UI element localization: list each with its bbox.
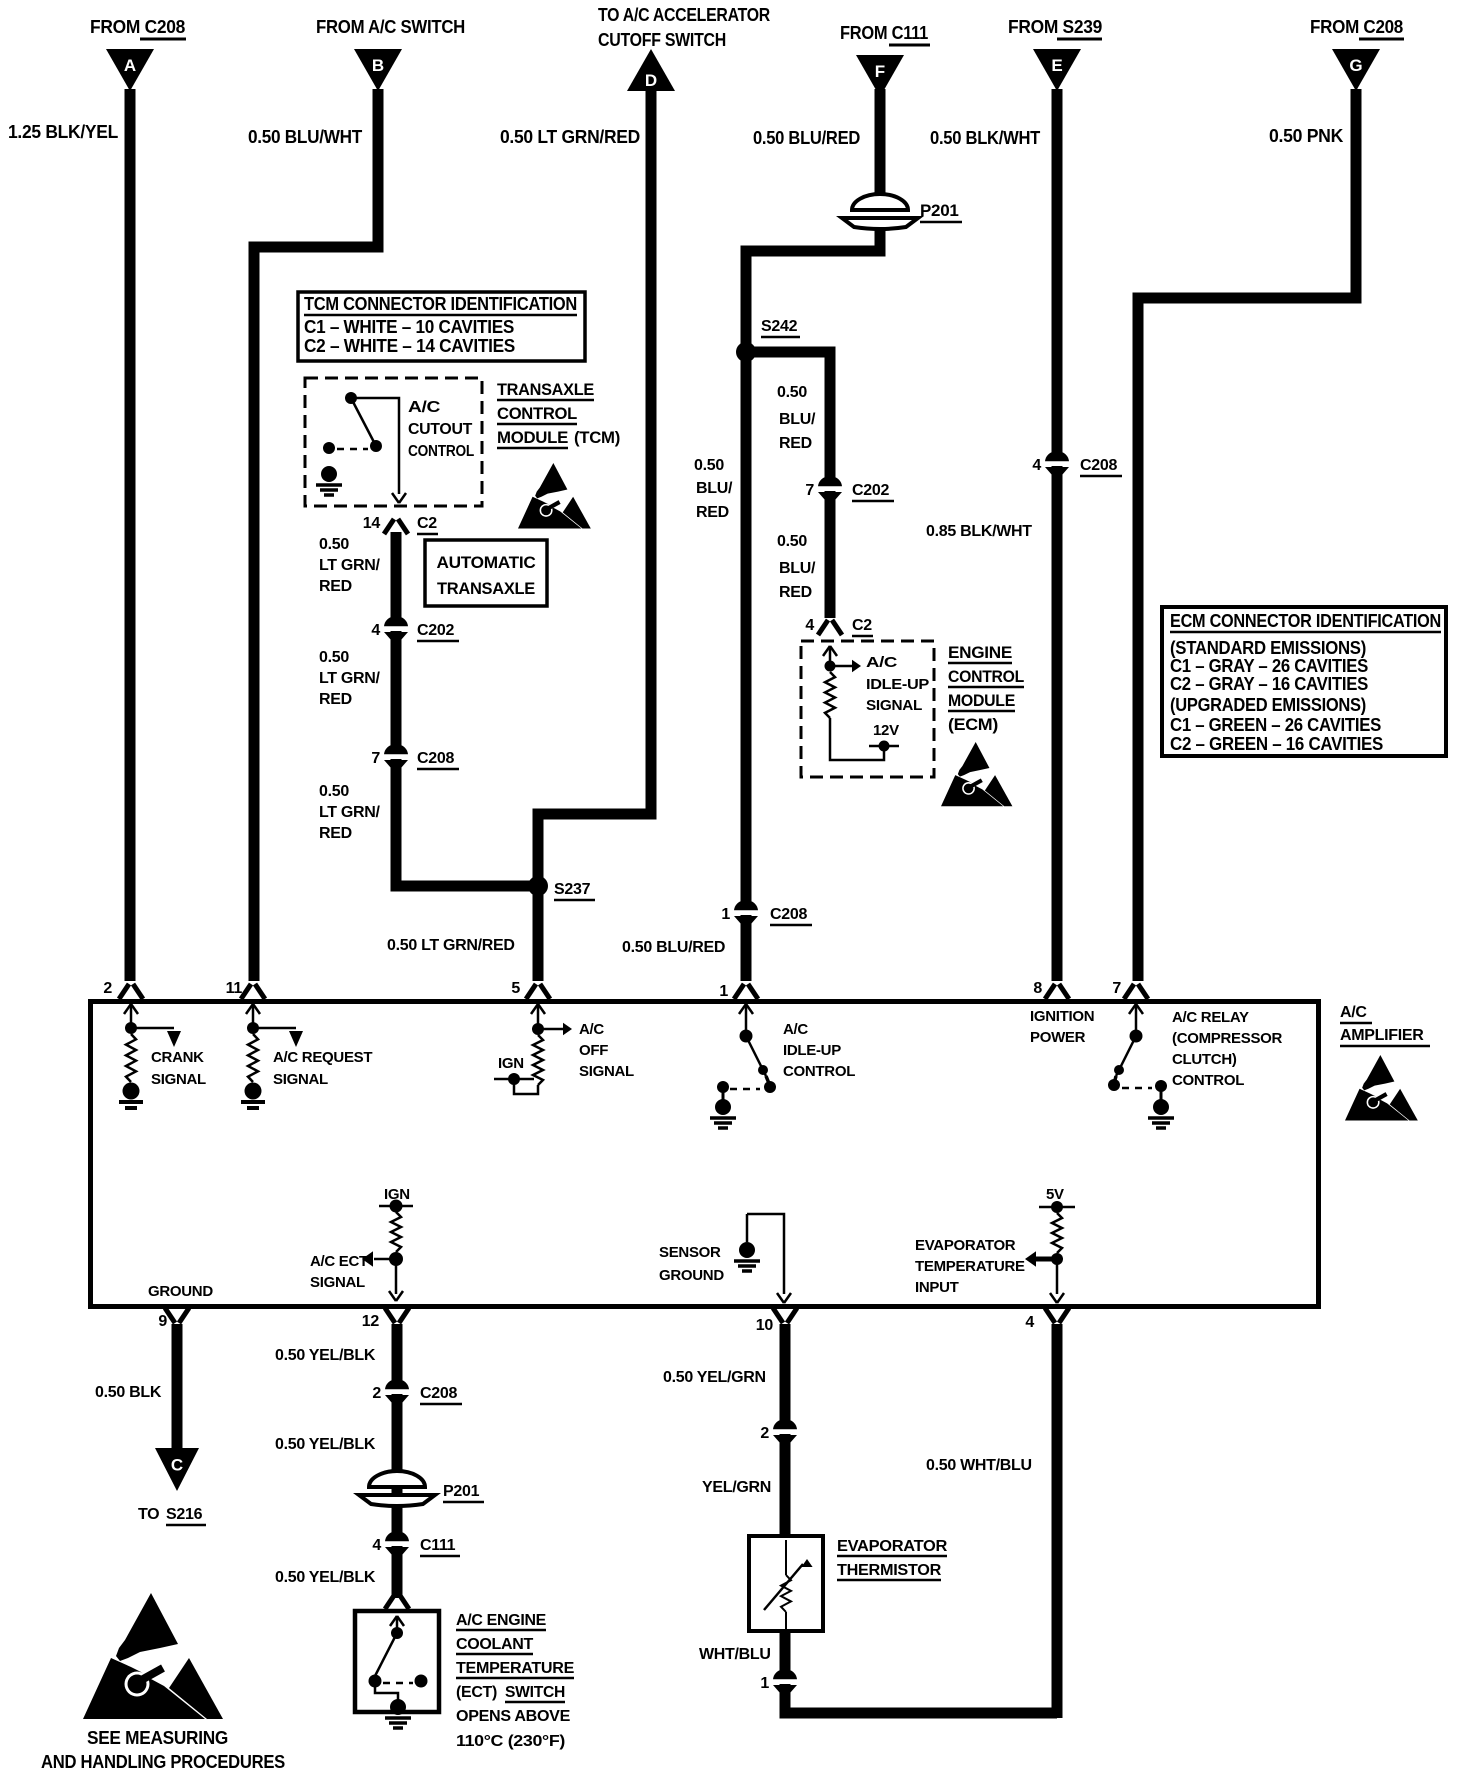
ect switch ground — [390, 1699, 406, 1715]
svg-text:E: E — [1051, 56, 1062, 75]
IGN rail (pin12) — [379, 1205, 413, 1208]
wire F (0.50 BLU/RED) — [875, 89, 886, 196]
svg-text:5: 5 — [511, 980, 520, 997]
svg-text:4: 4 — [805, 617, 814, 634]
svg-text:A/C ECT: A/C ECT — [310, 1253, 368, 1270]
svg-text:0.50 BLU/RED: 0.50 BLU/RED — [753, 128, 860, 148]
cutout switch blade — [351, 398, 376, 446]
splice S237 — [528, 876, 548, 896]
svg-text:TRANSAXLE: TRANSAXLE — [437, 579, 535, 598]
svg-text:FROM C208: FROM C208 — [1310, 17, 1403, 37]
svg-text:OFF: OFF — [579, 1042, 608, 1059]
connector triangle C — [155, 1448, 199, 1491]
svg-text:C2 – GRAY – 16 CAVITIES: C2 – GRAY – 16 CAVITIES — [1170, 674, 1368, 694]
svg-text:S216: S216 — [166, 1506, 203, 1523]
svg-text:7: 7 — [371, 750, 380, 767]
cutout switch left contact — [323, 442, 335, 454]
svg-text:A/C: A/C — [1340, 1004, 1367, 1021]
svg-text:0.50: 0.50 — [777, 533, 807, 550]
svg-text:CONTROL: CONTROL — [408, 443, 474, 460]
svg-text:OPENS ABOVE: OPENS ABOVE — [456, 1708, 571, 1725]
svg-text:0.50: 0.50 — [319, 649, 349, 666]
svg-text:C208: C208 — [417, 750, 454, 767]
idle-up moving contact — [764, 1081, 776, 1093]
wire E (0.50 BLK/WHT) — [1052, 89, 1063, 981]
cutout switch bottom contact — [370, 440, 382, 452]
svg-text:SIGNAL: SIGNAL — [273, 1071, 328, 1088]
thermistor arrow — [764, 1564, 803, 1610]
pin 7 — [1124, 984, 1134, 999]
5V rail — [1039, 1206, 1075, 1209]
svg-text:C208: C208 — [1080, 457, 1117, 474]
svg-text:C2: C2 — [417, 515, 437, 532]
crank signal arrow — [124, 1004, 131, 1014]
wire pin 9 to C — [172, 1324, 183, 1452]
svg-text:COOLANT: COOLANT — [456, 1636, 534, 1653]
ect resistor — [391, 1212, 401, 1252]
a/c off resistor — [533, 1035, 543, 1085]
svg-text:GROUND: GROUND — [148, 1283, 213, 1300]
pin 5 — [526, 984, 536, 999]
svg-text:A/C: A/C — [408, 399, 441, 416]
svg-text:THERMISTOR: THERMISTOR — [837, 1562, 942, 1579]
crank signal node — [125, 1022, 137, 1034]
svg-text:C208: C208 — [420, 1385, 457, 1402]
svg-text:RED: RED — [319, 578, 352, 595]
svg-text:(ECM): (ECM) — [948, 715, 998, 734]
pin 9 — [165, 1308, 175, 1323]
svg-text:SIGNAL: SIGNAL — [310, 1274, 365, 1291]
relay switch blade — [1116, 1036, 1136, 1076]
wire B (0.50 BLU/WHT) — [254, 89, 378, 981]
svg-text:C2 – GREEN – 16 CAVITIES: C2 – GREEN – 16 CAVITIES — [1170, 734, 1383, 754]
svg-text:MODULE: MODULE — [948, 691, 1015, 710]
svg-text:BLU/: BLU/ — [696, 480, 733, 497]
svg-text:A/C RELAY: A/C RELAY — [1172, 1009, 1249, 1026]
svg-text:0.50 BLK: 0.50 BLK — [95, 1384, 162, 1401]
cutout ground — [321, 466, 337, 482]
ect switch right contact — [415, 1675, 428, 1688]
automatic transaxle box — [425, 540, 547, 606]
svg-text:0.85 BLK/WHT: 0.85 BLK/WHT — [926, 523, 1032, 540]
svg-text:0.50 BLU/RED: 0.50 BLU/RED — [622, 939, 725, 956]
svg-text:IGNITION: IGNITION — [1030, 1008, 1094, 1025]
relay dashed link — [1122, 1087, 1152, 1090]
svg-text:FROM C111: FROM C111 — [840, 23, 928, 43]
svg-text:C202: C202 — [852, 482, 889, 499]
ECM internal resistor — [825, 672, 835, 718]
svg-text:P201: P201 — [920, 201, 959, 220]
svg-text:TO: TO — [138, 1506, 159, 1523]
svg-text:IGN: IGN — [384, 1186, 410, 1203]
ECT switch funnel — [385, 1594, 395, 1609]
wire pin 12 down — [392, 1324, 403, 1598]
svg-text:1: 1 — [719, 983, 728, 1000]
svg-text:C208: C208 — [770, 906, 807, 923]
svg-text:CLUTCH): CLUTCH) — [1172, 1051, 1237, 1068]
A/C amplifier box — [91, 1002, 1319, 1307]
svg-text:9: 9 — [158, 1313, 167, 1330]
a/c off node — [532, 1023, 544, 1035]
svg-text:S242: S242 — [761, 318, 798, 335]
svg-text:WHT/BLU: WHT/BLU — [699, 1646, 771, 1663]
svg-text:CUTOUT: CUTOUT — [408, 421, 473, 438]
svg-text:RED: RED — [779, 584, 812, 601]
a/c request ground — [245, 1083, 262, 1100]
idle-up top contact — [740, 1030, 753, 1043]
svg-text:FROM S239: FROM S239 — [1008, 17, 1102, 37]
pin 4 C2 into ECM — [818, 620, 828, 635]
relay right contact — [1155, 1080, 1167, 1092]
connector triangle G — [1332, 49, 1380, 91]
svg-text:C2 – WHITE – 14 CAVITIES: C2 – WHITE – 14 CAVITIES — [304, 336, 515, 356]
a/c off arrow — [531, 1004, 538, 1014]
evap wire down arrow — [1056, 1259, 1059, 1294]
svg-text:A/C: A/C — [783, 1021, 808, 1038]
svg-text:0.50: 0.50 — [319, 783, 349, 800]
IGN rail (pin5) — [494, 1078, 534, 1081]
svg-text:MODULE: MODULE — [497, 428, 568, 447]
svg-text:TCM CONNECTOR IDENTIFICATION: TCM CONNECTOR IDENTIFICATION — [304, 294, 577, 314]
ESD symbol (amplifier) — [1345, 1055, 1418, 1121]
svg-text:110°C (230°F): 110°C (230°F) — [456, 1733, 565, 1750]
a/c off wire to IGN — [514, 1082, 538, 1094]
svg-text:RED: RED — [319, 691, 352, 708]
svg-text:0.50 LT GRN/RED: 0.50 LT GRN/RED — [387, 937, 515, 954]
svg-text:4: 4 — [1025, 1314, 1034, 1331]
svg-text:RED: RED — [696, 504, 729, 521]
relay ground — [1160, 1090, 1163, 1101]
ECM box (dashed) — [801, 641, 934, 777]
TCM connector identification box — [298, 292, 585, 361]
svg-text:0.50 YEL/GRN: 0.50 YEL/GRN — [663, 1369, 766, 1386]
svg-text:0.50 LT GRN/RED: 0.50 LT GRN/RED — [500, 127, 640, 147]
svg-text:2: 2 — [103, 980, 112, 997]
svg-text:A/C ENGINE: A/C ENGINE — [456, 1612, 547, 1629]
evap branch thick arrow — [1035, 1257, 1057, 1262]
crank signal resistor — [126, 1034, 136, 1082]
svg-text:11: 11 — [226, 980, 243, 997]
connector triangle B — [354, 49, 402, 91]
svg-text:A: A — [124, 56, 136, 75]
wire pin 4 down — [1052, 1324, 1063, 1718]
svg-text:0.50: 0.50 — [694, 457, 724, 474]
ECM internal node dot — [825, 661, 836, 672]
connector 1 C208 (wire F) — [732, 900, 760, 924]
svg-text:7: 7 — [805, 482, 814, 499]
cutout switch top contact — [345, 392, 357, 404]
svg-text:(COMPRESSOR: (COMPRESSOR — [1172, 1030, 1283, 1047]
connector P201 on wire F — [842, 194, 918, 229]
relay arrow — [1129, 1004, 1136, 1014]
cutout dashed link — [337, 448, 368, 451]
svg-text:10: 10 — [756, 1317, 774, 1334]
pin 10 — [773, 1308, 783, 1323]
svg-text:AMPLIFIER: AMPLIFIER — [1340, 1027, 1424, 1044]
connector triangle D — [627, 49, 675, 91]
idle-up left contact — [717, 1081, 729, 1093]
ect switch left contact — [369, 1675, 382, 1688]
svg-text:AND HANDLING PROCEDURES: AND HANDLING PROCEDURES — [41, 1752, 285, 1772]
svg-text:0.50: 0.50 — [777, 384, 807, 401]
ect switch wire to ground — [375, 1681, 398, 1702]
pin 2 — [119, 984, 129, 999]
wire G (0.50 PNK) — [1138, 89, 1356, 981]
svg-text:C202: C202 — [417, 622, 454, 639]
svg-text:SIGNAL: SIGNAL — [579, 1063, 634, 1080]
connector 4 C111 (pin12) — [383, 1531, 411, 1555]
svg-text:0.50: 0.50 — [319, 536, 349, 553]
svg-text:CONTROL: CONTROL — [783, 1063, 855, 1080]
svg-text:LT GRN/: LT GRN/ — [319, 804, 381, 821]
svg-text:G: G — [1349, 56, 1362, 75]
svg-text:C111: C111 — [420, 1537, 456, 1554]
a/c request node — [247, 1022, 259, 1034]
svg-text:RED: RED — [779, 435, 812, 452]
svg-text:S237: S237 — [554, 881, 591, 898]
pin 11 — [241, 984, 251, 999]
svg-text:ECM CONNECTOR IDENTIFICATION: ECM CONNECTOR IDENTIFICATION — [1170, 611, 1441, 631]
svg-text:IDLE-UP: IDLE-UP — [783, 1042, 841, 1059]
svg-text:FROM C208: FROM C208 — [90, 17, 185, 37]
svg-text:C2: C2 — [852, 617, 872, 634]
idle-up switch blade — [746, 1036, 766, 1076]
svg-text:LT GRN/: LT GRN/ — [319, 557, 381, 574]
svg-text:CUTOFF SWITCH: CUTOFF SWITCH — [598, 30, 726, 50]
svg-text:0.50 YEL/BLK: 0.50 YEL/BLK — [275, 1347, 376, 1364]
svg-text:12: 12 — [362, 1313, 380, 1330]
wire TCM chain — [396, 532, 534, 886]
svg-text:TRANSAXLE: TRANSAXLE — [497, 380, 594, 399]
svg-text:0.50 BLK/WHT: 0.50 BLK/WHT — [930, 128, 1040, 148]
connector 4 C202 (TCM chain) — [382, 616, 410, 640]
ESD symbol (large) — [83, 1593, 223, 1719]
relay top contact — [1130, 1030, 1143, 1043]
svg-text:0.50 PNK: 0.50 PNK — [1269, 126, 1343, 146]
ECM internal arrow up — [823, 646, 830, 656]
connector 7 C202 (branch) — [816, 476, 844, 500]
ECM 12V rail — [869, 745, 899, 748]
crank signal ground — [123, 1083, 140, 1100]
a/c request arrow — [246, 1004, 253, 1014]
connector P201 (pin12) — [359, 1471, 435, 1506]
evap resistor — [1052, 1213, 1062, 1253]
svg-text:4: 4 — [1032, 457, 1041, 474]
svg-text:YEL/GRN: YEL/GRN — [702, 1479, 771, 1496]
idle-up arrow — [739, 1004, 746, 1014]
svg-text:C1 – WHITE – 10 CAVITIES: C1 – WHITE – 10 CAVITIES — [304, 317, 514, 337]
sensor ground wire — [747, 1214, 784, 1294]
svg-text:0.50 YEL/BLK: 0.50 YEL/BLK — [275, 1436, 376, 1453]
svg-text:C1 – GREEN – 26 CAVITIES: C1 – GREEN – 26 CAVITIES — [1170, 715, 1381, 735]
svg-text:IDLE-UP: IDLE-UP — [866, 676, 929, 693]
relay moving contact — [1108, 1079, 1120, 1091]
svg-text:SENSOR: SENSOR — [659, 1244, 721, 1261]
svg-text:0.50 BLU/WHT: 0.50 BLU/WHT — [248, 127, 362, 147]
svg-text:SEE MEASURING: SEE MEASURING — [87, 1728, 228, 1748]
svg-text:(ECT): (ECT) — [456, 1684, 497, 1701]
svg-text:RED: RED — [319, 825, 352, 842]
svg-text:AUTOMATIC: AUTOMATIC — [437, 553, 536, 572]
connector 2 C208 (pin12) — [383, 1379, 411, 1403]
idle-up dashed link — [730, 1088, 760, 1091]
svg-text:4: 4 — [372, 1537, 381, 1554]
svg-text:1.25 BLK/YEL: 1.25 BLK/YEL — [8, 122, 118, 142]
svg-text:TEMPERATURE: TEMPERATURE — [456, 1660, 575, 1677]
svg-text:12V: 12V — [873, 722, 899, 739]
sensor ground symbol — [746, 1214, 749, 1242]
svg-text:4: 4 — [371, 622, 380, 639]
a/c request branch arrow — [253, 1027, 296, 1030]
ESD symbol (ECM) — [941, 742, 1012, 806]
ect node — [389, 1252, 403, 1266]
svg-text:(UPGRADED EMISSIONS): (UPGRADED EMISSIONS) — [1170, 695, 1366, 715]
wire pin 10 down — [780, 1324, 791, 1538]
svg-text:LT GRN/: LT GRN/ — [319, 670, 381, 687]
svg-text:8: 8 — [1033, 980, 1042, 997]
svg-text:(TCM): (TCM) — [574, 428, 620, 447]
svg-text:D: D — [645, 71, 657, 90]
connector 1 (pin10) — [771, 1669, 799, 1693]
connector 7 C208 (TCM chain) — [382, 744, 410, 768]
ect branch arrow — [374, 1258, 396, 1261]
svg-text:1: 1 — [760, 1675, 769, 1692]
svg-text:POWER: POWER — [1030, 1029, 1086, 1046]
svg-text:EVAPORATOR: EVAPORATOR — [837, 1538, 948, 1555]
svg-text:2: 2 — [760, 1425, 769, 1442]
svg-text:EVAPORATOR: EVAPORATOR — [915, 1237, 1016, 1254]
A/C cutout control box (dashed) — [305, 378, 482, 506]
connector triangle A — [106, 49, 154, 91]
svg-text:7: 7 — [1112, 980, 1121, 997]
connector triangle E — [1033, 49, 1081, 91]
svg-text:A/C: A/C — [579, 1021, 604, 1038]
cutout wire to C2 with arrow — [351, 398, 399, 494]
svg-text:0.50 WHT/BLU: 0.50 WHT/BLU — [926, 1457, 1032, 1474]
wire branch S242 to ECM — [746, 352, 830, 618]
svg-text:5V: 5V — [1046, 1186, 1064, 1203]
pin 1 — [734, 984, 744, 999]
svg-text:SIGNAL: SIGNAL — [151, 1071, 206, 1088]
ECM internal wire to 12V — [830, 718, 884, 760]
ECM connector identification box — [1162, 607, 1446, 756]
ect switch dashed link — [383, 1682, 413, 1685]
svg-text:A/C REQUEST: A/C REQUEST — [273, 1049, 372, 1066]
svg-text:2: 2 — [372, 1385, 381, 1402]
ect switch blade — [375, 1633, 397, 1676]
a/c off branch arrow — [538, 1028, 563, 1031]
wire thermistor down — [785, 1631, 1057, 1713]
svg-text:ENGINE: ENGINE — [948, 643, 1012, 662]
evap node — [1051, 1253, 1063, 1265]
svg-text:SIGNAL: SIGNAL — [866, 697, 922, 714]
pin 8 — [1045, 984, 1055, 999]
svg-text:IGN: IGN — [498, 1055, 524, 1072]
svg-text:C: C — [171, 1455, 183, 1474]
svg-text:CRANK: CRANK — [151, 1049, 204, 1066]
pin 14 C2 (TCM) — [384, 519, 394, 534]
thermistor element — [785, 1540, 787, 1575]
svg-text:A/C: A/C — [866, 654, 898, 671]
svg-text:(STANDARD EMISSIONS): (STANDARD EMISSIONS) — [1170, 638, 1366, 658]
pin 12 — [385, 1308, 395, 1323]
connector 2 (pin10) — [771, 1419, 799, 1443]
svg-text:SWITCH: SWITCH — [505, 1684, 565, 1701]
svg-text:CONTROL: CONTROL — [948, 667, 1024, 686]
crank signal branch arrow — [131, 1027, 174, 1030]
ect switch arrow — [390, 1616, 397, 1626]
wire A (1.25 BLK/YEL) — [125, 89, 136, 981]
svg-text:1: 1 — [721, 906, 730, 923]
ESD symbol (TCM) — [518, 463, 591, 529]
connector 4 C208 (wire E) — [1043, 451, 1071, 475]
svg-text:TO A/C ACCELERATOR: TO A/C ACCELERATOR — [598, 5, 770, 25]
ect wire down arrow — [395, 1259, 398, 1294]
svg-text:14: 14 — [363, 515, 381, 532]
idle-up ground — [722, 1090, 725, 1101]
svg-text:TEMPERATURE: TEMPERATURE — [915, 1258, 1025, 1275]
svg-text:INPUT: INPUT — [915, 1279, 959, 1296]
connector triangle F — [856, 55, 904, 97]
svg-text:CONTROL: CONTROL — [497, 404, 577, 423]
svg-text:GROUND: GROUND — [659, 1267, 724, 1284]
evaporator thermistor box — [749, 1536, 823, 1631]
svg-text:BLU/: BLU/ — [779, 411, 816, 428]
ect switch top contact — [391, 1627, 403, 1639]
svg-text:C1 – GRAY – 26 CAVITIES: C1 – GRAY – 26 CAVITIES — [1170, 656, 1368, 676]
ECM internal arrow right (A/C IDLE-UP SIGNAL) — [830, 665, 852, 668]
a/c request resistor — [248, 1034, 258, 1082]
svg-text:CONTROL: CONTROL — [1172, 1072, 1244, 1089]
svg-text:0.50 YEL/BLK: 0.50 YEL/BLK — [275, 1569, 376, 1586]
A/C ECT switch box — [355, 1611, 439, 1712]
pin 4 — [1045, 1308, 1055, 1323]
wire D (0.50 LT GRN/RED) — [538, 89, 651, 981]
svg-text:F: F — [875, 62, 885, 81]
svg-text:B: B — [372, 56, 384, 75]
svg-text:P201: P201 — [443, 1483, 480, 1500]
svg-text:FROM A/C SWITCH: FROM A/C SWITCH — [316, 17, 465, 37]
splice S242 — [736, 342, 756, 362]
svg-text:BLU/: BLU/ — [779, 560, 816, 577]
